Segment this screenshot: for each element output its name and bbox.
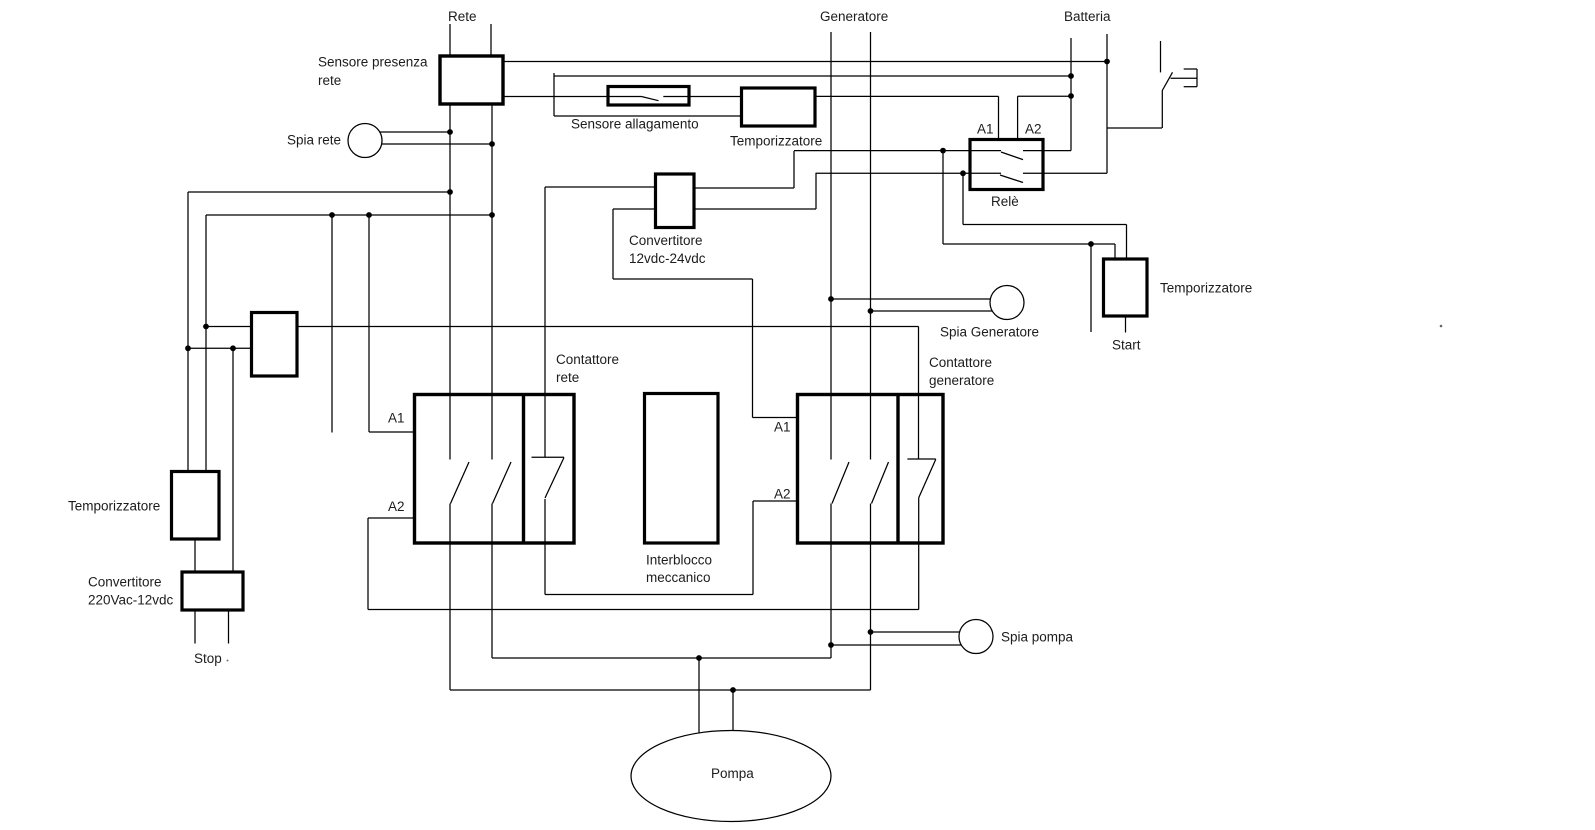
svg-text:A1: A1 (388, 411, 405, 426)
svg-text:Relè: Relè (991, 194, 1019, 209)
svg-text:Rete: Rete (448, 9, 477, 24)
svg-text:rete: rete (556, 370, 579, 385)
svg-text:meccanico: meccanico (646, 570, 711, 585)
svg-text:Start: Start (1112, 338, 1141, 353)
svg-text:A1: A1 (774, 420, 791, 435)
svg-text:Batteria: Batteria (1064, 9, 1111, 24)
svg-text:Sensore allagamento: Sensore allagamento (571, 117, 699, 132)
svg-text:Convertitore: Convertitore (88, 575, 162, 590)
svg-text:Contattore: Contattore (556, 352, 619, 367)
svg-text:Temporizzatore: Temporizzatore (730, 134, 822, 149)
svg-text:Temporizzatore: Temporizzatore (1160, 281, 1252, 296)
svg-text:Generatore: Generatore (820, 9, 888, 24)
svg-text:Pompa: Pompa (711, 766, 754, 781)
svg-text:Spia Generatore: Spia Generatore (940, 325, 1039, 340)
svg-text:rete: rete (318, 73, 341, 88)
svg-text:generatore: generatore (929, 373, 994, 388)
svg-text:A1: A1 (977, 122, 994, 137)
svg-text:Sensore presenza: Sensore presenza (318, 55, 428, 70)
svg-text:Interblocco: Interblocco (646, 553, 712, 568)
svg-text:Convertitore: Convertitore (629, 233, 703, 248)
svg-text:Spia rete: Spia rete (287, 133, 341, 148)
svg-text:220Vac-12vdc: 220Vac-12vdc (88, 593, 174, 608)
svg-text:Contattore: Contattore (929, 355, 992, 370)
svg-text:Stop: Stop (194, 651, 222, 666)
svg-text:12vdc-24vdc: 12vdc-24vdc (629, 251, 706, 266)
svg-text:A2: A2 (774, 487, 791, 502)
svg-text:Temporizzatore: Temporizzatore (68, 499, 160, 514)
svg-text:A2: A2 (388, 499, 405, 514)
svg-text:Spia pompa: Spia pompa (1001, 630, 1074, 645)
svg-text:A2: A2 (1025, 122, 1042, 137)
